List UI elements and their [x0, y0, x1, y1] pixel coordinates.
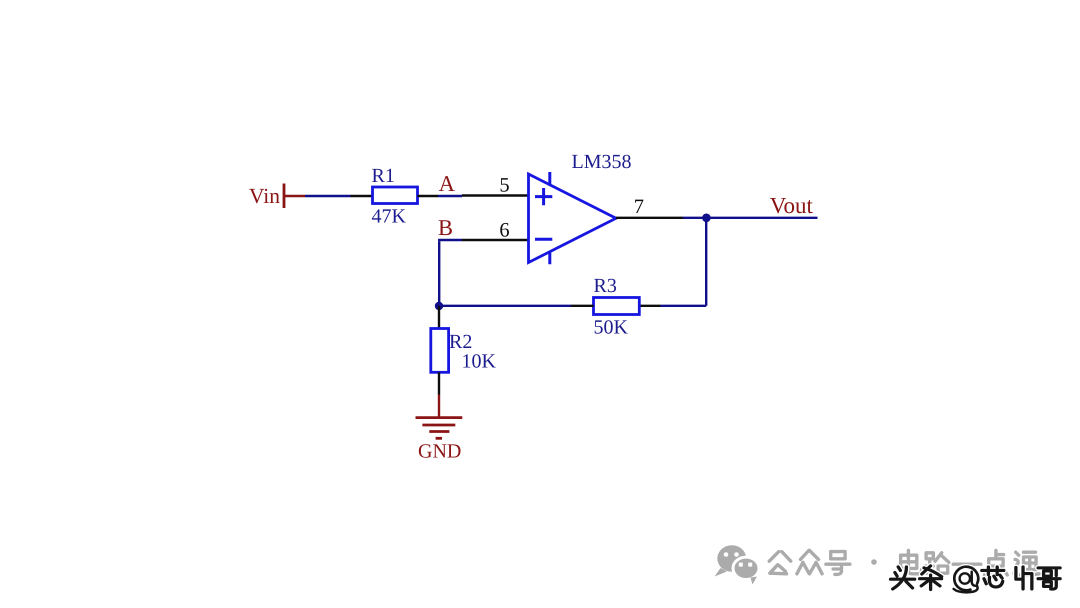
svg-text:R1: R1: [372, 165, 395, 187]
svg-text:5: 5: [499, 174, 509, 196]
svg-text:A: A: [439, 171, 456, 196]
svg-text:LM358: LM358: [572, 151, 632, 173]
svg-text:47K: 47K: [372, 206, 407, 228]
svg-text:Vout: Vout: [770, 193, 814, 218]
svg-text:R3: R3: [594, 275, 617, 297]
svg-text:B: B: [438, 215, 453, 240]
svg-text:50K: 50K: [594, 317, 629, 339]
svg-text:6: 6: [499, 219, 509, 241]
svg-text:10K: 10K: [462, 351, 497, 373]
svg-text:7: 7: [634, 196, 644, 218]
svg-text:Vin: Vin: [249, 184, 280, 208]
svg-text:GND: GND: [418, 441, 461, 463]
